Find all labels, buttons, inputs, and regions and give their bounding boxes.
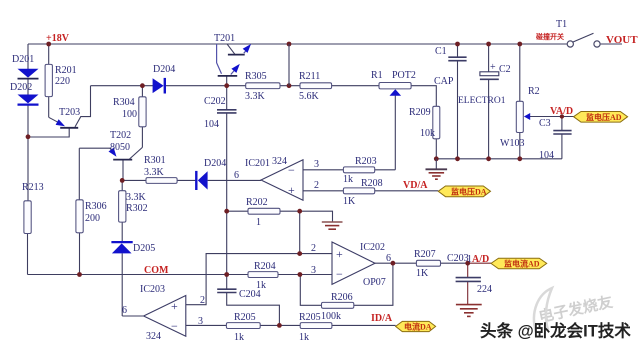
wire R2 top lead <box>519 44 521 101</box>
resistor R211 <box>300 83 332 89</box>
svg-text:COM: COM <box>144 265 169 276</box>
wire T203 collector staircase up <box>75 86 91 127</box>
wire T201 upper collector diagonal <box>227 44 235 54</box>
capacitor C2 electrolytic <box>480 72 499 80</box>
wire C204 bottom hook to R205 junction <box>227 293 280 326</box>
wire rail to VOUT after switch <box>600 43 622 45</box>
svg-text:D204: D204 <box>153 64 175 75</box>
wire bottom capacitor rail <box>436 158 562 160</box>
svg-text:3.3K: 3.3K <box>245 91 266 102</box>
svg-text:T202: T202 <box>110 130 131 141</box>
junction dot bus R304 <box>140 83 145 88</box>
junction dot IC202 output <box>391 261 396 266</box>
svg-text:电流DA: 电流DA <box>404 322 432 332</box>
resistor R302 <box>119 191 126 222</box>
svg-text:5.6K: 5.6K <box>299 91 320 102</box>
wire R207 to C203 node <box>441 262 468 264</box>
net tag ID/A yellow <box>396 321 436 331</box>
svg-text:R1: R1 <box>371 70 383 81</box>
wire C202 bottom to R202 node through IC201 wire <box>226 113 228 275</box>
wire long vertical bus to C202 <box>226 86 228 110</box>
wire D204 to R305 <box>165 85 246 87</box>
wire left branch down from rail to D201 <box>27 44 29 69</box>
wire C3 bottom to rail <box>561 134 563 159</box>
wire T202 base down to node <box>122 160 124 181</box>
wire C2 bottom lead <box>488 79 490 158</box>
svg-text:100: 100 <box>122 109 137 120</box>
svg-text:2: 2 <box>200 295 205 306</box>
wire C2 top lead <box>488 44 490 72</box>
junction dot ground rail C1 <box>455 156 460 161</box>
capacitor C202 <box>217 110 237 113</box>
svg-text:R201: R201 <box>55 65 77 76</box>
wire IC203 pin3 to R205a <box>186 324 227 326</box>
wire W103 wiper to VA/D node <box>530 116 574 118</box>
svg-text:R211: R211 <box>299 71 320 82</box>
wire R305 R211 node up to rail <box>288 44 290 86</box>
svg-text:3.3K: 3.3K <box>126 192 147 203</box>
svg-text:T201: T201 <box>214 33 235 44</box>
wire R302 bottom to D205 <box>121 222 123 242</box>
junction dot rail C2 <box>486 42 491 47</box>
wire bus y85.7 from T203 to D204 <box>91 85 154 87</box>
svg-text:C204: C204 <box>239 289 261 300</box>
net tag VA/D yellow <box>574 112 628 123</box>
wire C1 top lead <box>457 44 459 57</box>
svg-text:+: + <box>490 62 496 73</box>
svg-text:头条 @卧龙会IT技术: 头条 @卧龙会IT技术 <box>480 321 631 341</box>
wire VA/D node down to C3 <box>561 117 563 131</box>
wire C203 node to AD tag <box>468 262 491 264</box>
wire IC201 pin2 to R208 <box>303 190 343 192</box>
resistor R304 <box>139 97 146 127</box>
svg-text:IC203: IC203 <box>140 284 165 295</box>
svg-text:−: − <box>336 267 343 281</box>
wire COM node down to C204 <box>226 275 228 290</box>
svg-text:−: − <box>171 319 178 333</box>
wire R208 to VD/A tag <box>375 190 439 192</box>
svg-text:3: 3 <box>311 265 316 276</box>
wire T203 base lead to D202 node <box>28 128 70 137</box>
potentiometer R2 W103 body <box>516 101 523 132</box>
wire lower D204 to IC201 output <box>208 179 261 181</box>
transistor T203 <box>49 117 78 128</box>
resistor R305 <box>246 83 280 89</box>
svg-text:100k: 100k <box>321 311 341 322</box>
svg-text:R203: R203 <box>355 156 377 167</box>
svg-text:R304: R304 <box>113 97 135 108</box>
junction dot IC202 pin2 node <box>297 251 302 256</box>
svg-text:324: 324 <box>272 156 287 167</box>
junction dot bus R305 R211 <box>287 83 292 88</box>
wire IC203 output to apex <box>122 315 143 317</box>
svg-text:监电流AD: 监电流AD <box>504 259 540 269</box>
wire D205 down through COM to IC203 output corner <box>121 253 123 316</box>
svg-text:R302: R302 <box>126 203 148 214</box>
svg-text:R204: R204 <box>254 261 276 272</box>
resistor R201 <box>45 64 52 96</box>
svg-text:IC202: IC202 <box>360 242 385 253</box>
svg-text:C1: C1 <box>435 46 447 57</box>
svg-text:+18V: +18V <box>46 33 70 44</box>
wire R205a to R205b <box>260 324 300 326</box>
junction dot rail R2 <box>517 42 522 47</box>
svg-text:104: 104 <box>204 119 219 130</box>
wire R205b to ID/A tag <box>332 324 396 326</box>
svg-text:6: 6 <box>234 170 239 181</box>
potentiometer R1 POT2 body <box>379 83 411 89</box>
potentiometer W103 wiper arrow <box>524 113 530 120</box>
capacitor C203 <box>456 278 481 282</box>
wire R201 bottom lead <box>48 97 50 118</box>
svg-text:3: 3 <box>314 159 319 170</box>
junction dot COM R306 <box>77 272 82 277</box>
resistor R301 <box>146 178 177 184</box>
svg-text:D202: D202 <box>10 82 32 93</box>
wire R2 bottom lead <box>519 133 521 159</box>
wire R306 bottom to COM <box>79 233 81 275</box>
wire R204 left lead from COM node <box>227 274 248 276</box>
resistor R202 <box>248 208 280 214</box>
wire T202 emitter left horizontal <box>79 147 110 149</box>
svg-text:R213: R213 <box>22 182 44 193</box>
ground under C203 <box>456 305 482 317</box>
svg-text:D201: D201 <box>12 54 34 65</box>
diode D201 <box>18 69 39 79</box>
svg-text:−: − <box>288 163 295 177</box>
resistor R213 <box>24 201 31 234</box>
svg-text:R205: R205 <box>234 312 256 323</box>
watermark swoosh <box>534 288 552 332</box>
svg-text:IC201: IC201 <box>245 158 270 169</box>
resistor R203 <box>343 167 374 173</box>
svg-text:8050: 8050 <box>110 142 130 153</box>
svg-text:C3: C3 <box>539 118 551 129</box>
wire +18V top rail <box>28 43 567 45</box>
resistor R306 <box>76 200 83 233</box>
svg-text:R301: R301 <box>144 155 166 166</box>
diode D204 lower <box>196 171 207 190</box>
wire T201 base drop blue <box>217 44 222 74</box>
svg-text:监电压DA: 监电压DA <box>451 186 487 196</box>
op-amp IC202 <box>332 242 375 284</box>
wire R209 bottom to ground rail <box>435 139 437 159</box>
wire R202 node down to IC202 pin2 line <box>299 211 301 253</box>
svg-text:3: 3 <box>198 316 203 327</box>
svg-text:324: 324 <box>146 331 161 342</box>
svg-text:1K: 1K <box>343 196 356 207</box>
junction dot COM R204 vertical <box>224 272 229 277</box>
svg-text:R305: R305 <box>245 71 267 82</box>
svg-text:T1: T1 <box>556 19 567 30</box>
resistor R209 <box>433 106 440 139</box>
junction dot ground rail R2 <box>517 156 522 161</box>
svg-text:C202: C202 <box>204 96 226 107</box>
op-amp IC203 <box>144 296 186 337</box>
capacitor C1 <box>448 57 466 61</box>
junction dot ground rail R209 <box>434 156 439 161</box>
svg-text:C2: C2 <box>499 64 511 75</box>
wire T201 emitter node down to bus <box>226 76 228 86</box>
op-amp IC201 <box>261 160 303 201</box>
svg-text:OP07: OP07 <box>363 277 386 288</box>
wire C203 bottom to ground <box>467 282 469 305</box>
svg-text:3.3K: 3.3K <box>144 167 165 178</box>
wire R202 right lead to node <box>280 210 300 212</box>
potentiometer R1 wiper arrow <box>390 89 402 96</box>
wire R202 left lead <box>227 210 248 212</box>
svg-text:1K: 1K <box>416 268 429 279</box>
svg-text:D205: D205 <box>133 243 155 254</box>
junction dot D202 T203 base <box>26 134 31 139</box>
ground under R209 <box>426 159 448 179</box>
svg-text:VD/A: VD/A <box>403 180 428 191</box>
wire R302 top lead <box>121 180 123 190</box>
resistor R208 <box>343 188 374 194</box>
wire R202 node to ground stub <box>300 211 333 222</box>
junction dot C203 node <box>465 261 470 266</box>
wire IC201 pin3 to R203 <box>303 169 343 171</box>
svg-text:104: 104 <box>539 150 554 161</box>
svg-text:200: 200 <box>85 213 100 224</box>
svg-text:+: + <box>288 183 295 197</box>
transistor T202 <box>109 147 143 159</box>
svg-text:碰撞开关: 碰撞开关 <box>535 32 564 41</box>
wire R204 right to IC202 pin3 <box>278 274 332 276</box>
diode D202 <box>18 95 39 105</box>
svg-text:1k: 1k <box>299 332 309 343</box>
svg-text:2: 2 <box>314 180 319 191</box>
junction dot T202 R301 R302 <box>120 178 125 183</box>
wire D202 down through node to R213 <box>27 105 29 201</box>
svg-text:T203: T203 <box>59 107 80 118</box>
svg-text:R2: R2 <box>528 86 540 97</box>
wire R213 bottom to COM corner <box>27 234 29 275</box>
wire C203 top lead <box>467 263 469 277</box>
wire R201 top lead from +18V node <box>48 44 50 64</box>
wire R206 left leg up to pin3 node <box>300 275 321 306</box>
junction dot +18V R201 <box>46 42 51 47</box>
junction dot rail R305 branch <box>287 42 292 47</box>
svg-text:POT2: POT2 <box>392 70 416 81</box>
junction dot bus T201 C202 <box>224 83 229 88</box>
wire R304 bottom to T202 collector <box>141 127 143 148</box>
resistor R207 <box>416 260 440 266</box>
svg-text:ID/A: ID/A <box>371 313 393 324</box>
svg-text:A/D: A/D <box>472 254 489 265</box>
wire COM horizontal <box>28 274 333 276</box>
svg-text:D204: D204 <box>204 158 226 169</box>
svg-text:1: 1 <box>256 217 261 228</box>
wire node to R301 <box>122 179 146 181</box>
wire C1 bottom lead <box>457 61 459 159</box>
junction dot VA/D C3 <box>560 114 564 118</box>
svg-text:224: 224 <box>477 284 492 295</box>
svg-text:R306: R306 <box>85 201 107 212</box>
svg-text:10k: 10k <box>420 128 435 139</box>
svg-text:+: + <box>171 299 178 313</box>
switch T1 <box>567 33 600 47</box>
junction dot R205 C204 <box>277 323 282 328</box>
resistor R204 <box>248 272 278 278</box>
svg-text:ELECTRO1: ELECTRO1 <box>458 96 506 106</box>
svg-text:R209: R209 <box>409 107 431 118</box>
svg-text:R205: R205 <box>299 312 321 323</box>
wire R203 to pot wiper stem <box>375 169 396 171</box>
svg-text:R208: R208 <box>361 178 383 189</box>
svg-text:VA/D: VA/D <box>550 106 573 117</box>
svg-text:W103: W103 <box>500 138 524 149</box>
resistor R205 a <box>226 323 260 329</box>
svg-text:监电压AD: 监电压AD <box>586 112 622 122</box>
wire T202 left down to R306 <box>78 148 80 200</box>
capacitor C204 <box>217 289 236 292</box>
wire IC203 pin2 up and across to IC202 plus <box>186 254 332 305</box>
junction dot IC202 pin3 node <box>298 272 303 277</box>
svg-text:+: + <box>336 247 343 261</box>
svg-text:6: 6 <box>386 253 391 264</box>
capacitor C3 <box>553 131 571 134</box>
svg-text:6: 6 <box>122 305 127 316</box>
svg-text:CAP: CAP <box>434 76 454 87</box>
wire IC202 feedback loop R206 <box>354 263 393 305</box>
svg-text:VOUT: VOUT <box>606 34 638 46</box>
wire R301 to lower D204 <box>177 179 196 181</box>
ground under R202 node <box>322 222 343 229</box>
wire D201 to D202 <box>27 79 29 95</box>
svg-text:C203: C203 <box>447 253 469 264</box>
diode D205 zener <box>111 242 132 253</box>
diode D204 upper <box>153 78 165 94</box>
svg-text:1k: 1k <box>234 332 244 343</box>
junction dot ground rail C2 <box>486 156 491 161</box>
wire R304 top lead <box>141 86 143 97</box>
junction dot R202 right <box>297 209 302 214</box>
resistor R205 b <box>300 323 332 329</box>
net tag A/D yellow <box>491 258 547 269</box>
svg-text:R202: R202 <box>246 197 268 208</box>
wire pot R1 wiper stem <box>394 96 396 170</box>
wire pot R1 right to R209 top <box>411 86 436 107</box>
svg-text:R206: R206 <box>331 292 353 303</box>
wire R211 to pot R1 <box>332 85 379 87</box>
wire IC202 output to R207 <box>375 262 416 264</box>
junction dot rail C1 <box>455 42 460 47</box>
net tag VD/A yellow <box>438 186 490 197</box>
transistor T201 darlington <box>218 44 251 76</box>
svg-text:2: 2 <box>311 243 316 254</box>
junction dot R202 left <box>224 209 229 214</box>
svg-text:1k: 1k <box>343 174 353 185</box>
svg-text:220: 220 <box>55 76 70 87</box>
resistor R206 <box>322 302 354 308</box>
svg-text:R207: R207 <box>414 249 436 260</box>
wire R305 to R211 <box>280 85 300 87</box>
